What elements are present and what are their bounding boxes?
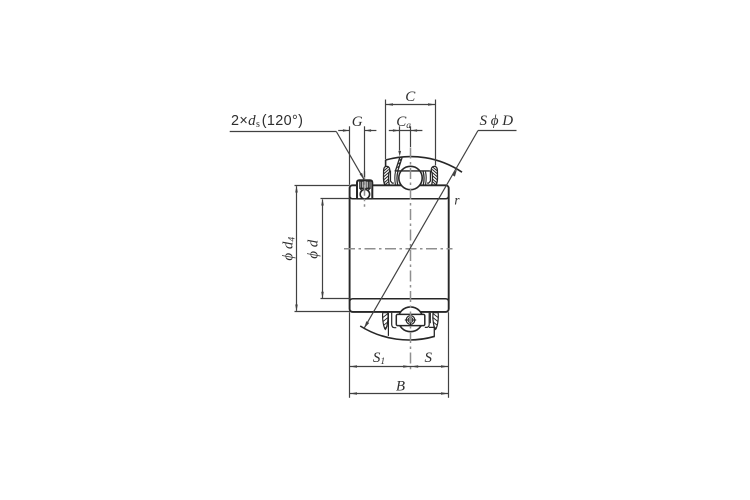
seal right (top), rubber with hatching (431, 166, 437, 185)
bore line top (350, 196, 449, 199)
dimension Ca (389, 126, 423, 150)
dimension B (350, 393, 449, 395)
seal groove shoulder left (394, 172, 397, 185)
set screw dimple circle (360, 190, 369, 199)
dimension G (338, 126, 376, 185)
inner ring raceway shoulder right (422, 171, 425, 185)
oil hole in outer ring (slanted, hatched) (395, 157, 402, 171)
set screw tip cone (360, 188, 370, 190)
dimension S1 and S (350, 366, 449, 368)
seal groove shoulder right (425, 172, 428, 185)
outer ring left face (385, 160, 387, 185)
svg-text:r: r (454, 193, 460, 208)
slinger right (top) (427, 171, 430, 184)
seal right (bottom), hatched (433, 313, 439, 330)
extension lines below bearing (left and right faces) (350, 312, 449, 398)
centerline: ball plane (vertical) (410, 148, 412, 370)
svg-text:2×ds (120°): 2×ds (120°) (231, 113, 303, 130)
svg-text:S ϕ D: S ϕ D (480, 113, 514, 129)
outer ring spherical arc bottom (360, 326, 435, 340)
outer ring spherical arc top (386, 157, 462, 173)
dimension C (386, 100, 436, 166)
bore line bottom (350, 299, 449, 302)
centerline: set screw axis (364, 171, 366, 207)
set screw boss (white fill under screw) (357, 180, 372, 198)
svg-text:S: S (425, 350, 433, 366)
ball (bottom) (398, 307, 423, 332)
rivet cross horizontal (405, 319, 416, 321)
seal left (top), rubber with hatching (384, 166, 390, 185)
slinger left (top) (391, 171, 394, 184)
outer ring land line over ball (395, 170, 430, 172)
svg-text:C: C (405, 89, 416, 105)
cage band (bottom) (396, 314, 425, 325)
inner ring silhouette (rounded rect) (350, 185, 449, 312)
seal left (bottom), hatched (383, 313, 389, 330)
dimension phi d4 (left outer) (295, 186, 351, 312)
inner ring shoulder hook right (bottom) (425, 313, 429, 328)
label 2×ds(120°) with leader to set screw (230, 132, 364, 180)
dimension phi d (bore) (321, 199, 351, 299)
inner ring raceway shoulder left (396, 171, 399, 185)
bore line across boss bottom (357, 198, 372, 200)
label S phi D with diameter leader through sphere (364, 131, 516, 329)
set screw thread lines (362, 181, 369, 188)
arrow to oil hole (398, 151, 401, 157)
slinger left (bottom) (387, 313, 389, 336)
outer ring face profile right (bottom) (429, 327, 434, 336)
slinger right (bottom) (429, 313, 431, 323)
set screw socket (gray center) (364, 181, 366, 188)
svg-text:B: B (396, 379, 405, 395)
set screw threaded body (360, 181, 370, 188)
cage rivet inner (408, 318, 413, 323)
outer ring right face (434, 166, 436, 186)
ball (top) (399, 166, 422, 189)
centerline: shaft axis (horizontal) (344, 248, 453, 250)
set screw boss outline (357, 180, 372, 198)
svg-text:G: G (352, 114, 363, 130)
inner ring shoulder hook left (bottom) (392, 313, 397, 328)
svg-text:ϕ d: ϕ d (305, 239, 321, 259)
cage rivet outer (406, 316, 415, 325)
rivet cross vertical (410, 315, 412, 325)
